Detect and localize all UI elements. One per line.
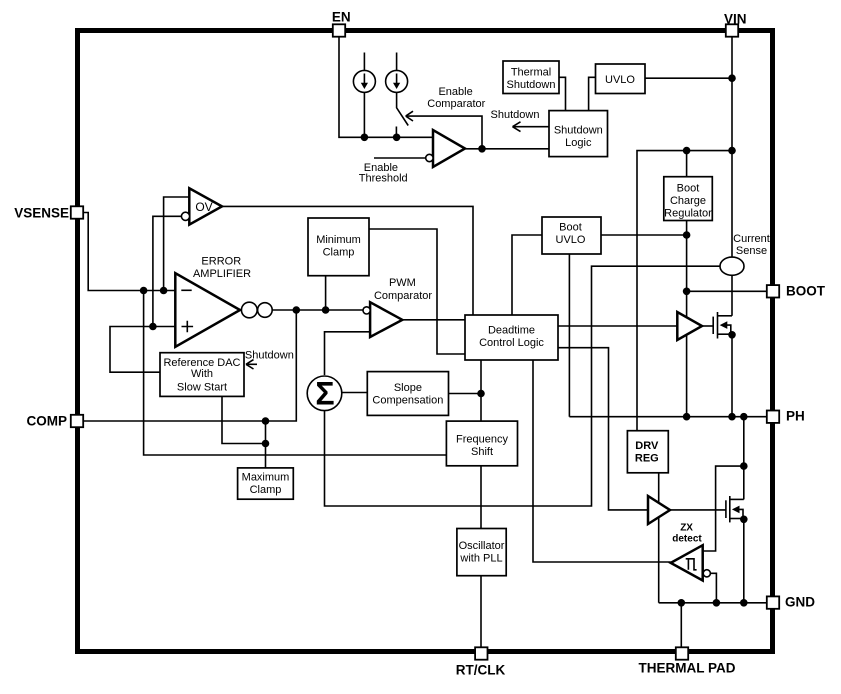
svg-text:Sense: Sense	[736, 245, 767, 257]
node high-side source PH junction	[728, 413, 736, 421]
wire UVLO to shutdown logic	[589, 77, 596, 110]
wire deadtime to frequency shift	[480, 360, 482, 421]
svg-text:Thermal: Thermal	[511, 67, 551, 79]
error amplifier output transconductance circles	[241, 302, 257, 318]
terminal VSENSE	[71, 206, 83, 218]
node EN junction I1	[361, 134, 369, 142]
svg-text:Slow Start: Slow Start	[177, 381, 227, 393]
svg-text:ZX: ZX	[680, 523, 693, 534]
wire deadtime to low-side gate driver	[558, 348, 648, 510]
wire boot UVLO to deadtime logic	[512, 235, 542, 315]
svg-text:Shift: Shift	[471, 446, 493, 458]
node ZX output GND junction	[713, 599, 721, 607]
wire GND to thermal pad	[680, 603, 682, 647]
box UVLO	[596, 64, 646, 94]
svg-text:Logic: Logic	[565, 137, 592, 149]
box Boot Charge Regulator	[664, 177, 713, 221]
wire VIN rail vertical	[731, 37, 733, 258]
wire hysteresis feedback from comparator output to switch	[407, 116, 483, 149]
wire maximum clamp vertical	[265, 421, 267, 468]
terminal RT/CLK	[475, 647, 487, 659]
svg-text:Control Logic: Control Logic	[479, 337, 544, 349]
wire OV output to deadtime logic	[222, 206, 473, 315]
node low-side drain PH junction	[740, 413, 748, 421]
svg-text:Oscillator: Oscillator	[459, 540, 505, 552]
wire current sense to high-side FET drain	[731, 275, 733, 316]
svg-text:Current: Current	[733, 233, 770, 245]
wire high-side source to PH	[731, 335, 733, 417]
svg-text:PWM: PWM	[389, 277, 416, 289]
wire reference to OV comparator inverting input	[153, 216, 183, 326]
svg-text:Compensation: Compensation	[372, 395, 443, 407]
svg-text:Clamp: Clamp	[323, 247, 355, 259]
svg-text:Reference DAC: Reference DAC	[163, 357, 240, 369]
svg-text:Clamp: Clamp	[250, 484, 282, 496]
wire minimum clamp to deadtime logic	[369, 229, 465, 354]
node high-side source junction	[728, 331, 736, 339]
node boot charge regulator top junction	[683, 147, 691, 155]
wire COMP to error amp output	[83, 310, 296, 421]
svg-text:Shutdown: Shutdown	[491, 109, 540, 121]
transistor Q2 low-side FET	[725, 500, 727, 518]
wire ZX sense to ZX detect input	[703, 466, 744, 551]
svg-text:BOOT: BOOT	[786, 283, 826, 298]
wire I1 to EN node	[363, 92, 365, 137]
current sense element	[720, 257, 744, 275]
svg-text:THERMAL PAD: THERMAL PAD	[639, 660, 736, 675]
node low-side source junction	[740, 516, 748, 524]
svg-text:RT/CLK: RT/CLK	[456, 662, 506, 677]
wire VIN feed to boot charge regulator and DRV REG	[637, 151, 732, 431]
summer sigma	[307, 376, 342, 411]
op-amp OV comparator	[189, 188, 222, 224]
wire high-side gate	[702, 325, 713, 327]
op-amp high-side gate driver	[677, 312, 702, 340]
wire BOOT-PH flying rail	[686, 221, 688, 417]
terminal THERMAL PAD	[676, 647, 688, 659]
chip boundary border	[78, 31, 773, 652]
svg-text:Boot: Boot	[559, 222, 582, 234]
wire low-side drain sense vertical	[743, 417, 745, 500]
wire shutdown arrow into DAC	[247, 363, 257, 365]
svg-text:Deadtime: Deadtime	[488, 325, 535, 337]
box DRV REG	[627, 431, 668, 473]
node VSENSE branch to frequency shift	[140, 287, 148, 295]
node reference junction on plus input	[149, 323, 157, 331]
svg-text:UVLO: UVLO	[605, 74, 635, 86]
wire boot charge regulator top	[686, 151, 688, 177]
wire VSENSE to OV comparator input	[164, 197, 190, 291]
node DAC-maximum clamp junction	[262, 440, 270, 448]
node BOOT rail junction	[683, 288, 691, 296]
svg-text:Charge: Charge	[670, 195, 706, 207]
current source I1 pull-up stub	[363, 53, 365, 71]
box Reference DAC With Slow Start	[160, 353, 244, 397]
wire ZX detect output bubble to GND	[710, 573, 716, 603]
svg-text:Threshold: Threshold	[359, 172, 408, 184]
switch S1 from I2	[397, 92, 409, 125]
svg-text:VSENSE: VSENSE	[14, 205, 69, 220]
wire boot UVLO to flying rail	[601, 234, 687, 236]
svg-text:detect: detect	[672, 533, 702, 544]
svg-text:Comparator: Comparator	[374, 290, 432, 302]
svg-text:Maximum: Maximum	[242, 471, 290, 483]
svg-text:REG: REG	[635, 452, 659, 464]
node low-side source GND junction	[740, 599, 748, 607]
wire PWM comparator output	[402, 319, 465, 321]
wire UVLO to VIN rail	[645, 77, 732, 79]
svg-text:COMP: COMP	[27, 414, 68, 429]
current source I2 pull-up stub	[396, 53, 398, 71]
node comparator output junction	[478, 145, 486, 153]
transistor Q1 high-side FET	[712, 317, 714, 334]
svg-text:OV: OV	[195, 200, 212, 214]
svg-text:With: With	[191, 368, 213, 380]
wire shutdown output arrow	[514, 126, 550, 128]
op-amp enable comparator	[433, 130, 465, 167]
wire DAC bottom output	[222, 396, 266, 443]
box Oscillator with PLL	[457, 529, 506, 576]
svg-text:Shutdown: Shutdown	[507, 79, 556, 91]
current source I1	[353, 70, 375, 92]
wire enable threshold input	[374, 157, 426, 159]
svg-text:PH: PH	[786, 409, 805, 424]
wire oscillator to RT/CLK pin	[480, 576, 482, 648]
op-amp U2 error amplifier	[175, 273, 240, 347]
box Deadtime Control Logic	[465, 315, 558, 360]
terminal BOOT	[767, 285, 779, 297]
node slope-deadtime junction	[477, 390, 485, 398]
wire slope compensation output	[449, 393, 482, 395]
wire summer to PWM comparator input	[325, 332, 371, 375]
node EN junction I2	[393, 134, 401, 142]
box Slope Compensation	[367, 372, 448, 416]
op-amp PWM comparator	[370, 302, 402, 337]
wire VSENSE to frequency shift	[144, 291, 447, 456]
wire PH line	[569, 416, 766, 418]
wire deadtime to high-side gate driver	[558, 325, 677, 327]
op-amp low-side gate driver	[648, 496, 670, 524]
svg-text:Enable: Enable	[438, 86, 472, 98]
box Shutdown Logic	[549, 111, 608, 157]
svg-text:Regulator: Regulator	[664, 207, 712, 219]
node VIN rail feed junction	[728, 147, 736, 155]
svg-text:Slope: Slope	[394, 382, 422, 394]
svg-text:DRV: DRV	[635, 440, 659, 452]
node UVLO-VIN junction	[728, 74, 736, 82]
wire EN vertical and horizontal to enable comparator	[339, 37, 433, 138]
svg-text:Shutdown: Shutdown	[554, 124, 603, 136]
box Boot UVLO	[542, 217, 601, 254]
svg-text:AMPLIFIER: AMPLIFIER	[193, 268, 251, 280]
svg-text:EN: EN	[332, 10, 351, 25]
box Maximum Clamp	[238, 468, 294, 499]
node minimum clamp branch	[322, 306, 330, 314]
node ZX sense junction	[740, 462, 748, 470]
terminal EN	[333, 24, 345, 36]
svg-text:Boot: Boot	[677, 183, 700, 195]
svg-text:ERROR: ERROR	[201, 255, 241, 267]
node thermal pad junction	[678, 599, 686, 607]
terminal PH	[767, 411, 779, 423]
wire DRV REG through low-side driver to GND	[658, 473, 660, 603]
terminal GND	[767, 596, 779, 608]
wire minimum clamp to error amp output	[325, 276, 327, 310]
node maximum clamp branch on COMP wire	[262, 417, 270, 425]
wire reference DAC to non-inverting input	[110, 327, 175, 373]
wire deadtime to ZX detect	[533, 360, 671, 562]
box Minimum Clamp	[308, 218, 369, 276]
svg-text:UVLO: UVLO	[556, 234, 586, 246]
node COMP branch	[293, 306, 301, 314]
wire comparator output to shutdown logic	[465, 148, 549, 150]
current source I2 (hysteresis)	[386, 70, 408, 92]
svg-text:Σ: Σ	[315, 376, 334, 412]
wire BOOT line	[687, 290, 767, 292]
wire boot UVLO PH sense	[568, 254, 570, 417]
box Frequency Shift	[446, 421, 517, 466]
svg-text:VIN: VIN	[724, 12, 747, 27]
box Thermal Shutdown	[503, 61, 559, 94]
wire summer to slope compensation	[342, 392, 367, 394]
svg-text:GND: GND	[785, 595, 815, 610]
svg-text:Comparator: Comparator	[427, 98, 485, 110]
wire low-side gate	[670, 509, 726, 511]
wire thermal shutdown to shutdown logic	[559, 77, 566, 110]
wire VSENSE to error amplifier inverting input	[83, 213, 175, 291]
terminal COMP	[71, 415, 83, 427]
wire low-side source to GND	[743, 519, 745, 603]
svg-text:Frequency: Frequency	[456, 434, 508, 446]
wire error amp output to PWM comparator	[272, 309, 363, 311]
node VSENSE branch to OV comparator	[160, 287, 168, 295]
op-amp ZX detect comparator	[671, 545, 703, 580]
node flying rail PH junction	[683, 413, 691, 421]
node boot UVLO rail junction	[683, 231, 691, 239]
wire frequency shift to oscillator	[480, 466, 482, 529]
terminal VIN	[726, 24, 738, 36]
wire GND rail	[659, 602, 767, 604]
wire current sense to summer	[325, 266, 721, 506]
svg-text:Minimum: Minimum	[316, 234, 361, 246]
svg-text:with PLL: with PLL	[459, 552, 502, 564]
